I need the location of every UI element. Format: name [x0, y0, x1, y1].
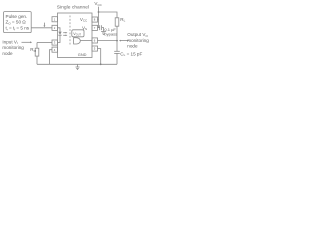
svg-text:node: node	[2, 51, 13, 56]
svg-text:VOUT: VOUT	[73, 32, 81, 37]
svg-text:Pulse gen.: Pulse gen.	[6, 14, 28, 19]
svg-text:ZO = 50 Ω: ZO = 50 Ω	[6, 20, 27, 26]
svg-text:RM: RM	[30, 47, 36, 53]
svg-text:VCC: VCC	[80, 17, 88, 23]
svg-text:VCC: VCC	[94, 1, 102, 7]
svg-text:bypass: bypass	[104, 31, 117, 36]
svg-text:CL = 15 pF: CL = 15 pF	[120, 51, 142, 57]
svg-text:Single channel: Single channel	[57, 5, 89, 10]
svg-text:node: node	[127, 43, 138, 48]
svg-text:tr = tf = 5 ns: tr = tf = 5 ns	[6, 26, 30, 32]
svg-text:VS: VS	[82, 26, 87, 32]
svg-text:RL: RL	[120, 17, 125, 23]
svg-text:monitoring: monitoring	[127, 38, 149, 43]
svg-text:GND: GND	[78, 52, 87, 57]
svg-text:monitoring: monitoring	[2, 45, 24, 50]
